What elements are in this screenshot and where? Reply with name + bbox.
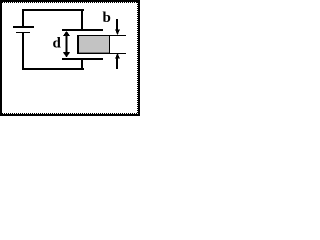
- svg-text:d: d: [53, 36, 62, 52]
- svg-text:b: b: [103, 10, 111, 26]
